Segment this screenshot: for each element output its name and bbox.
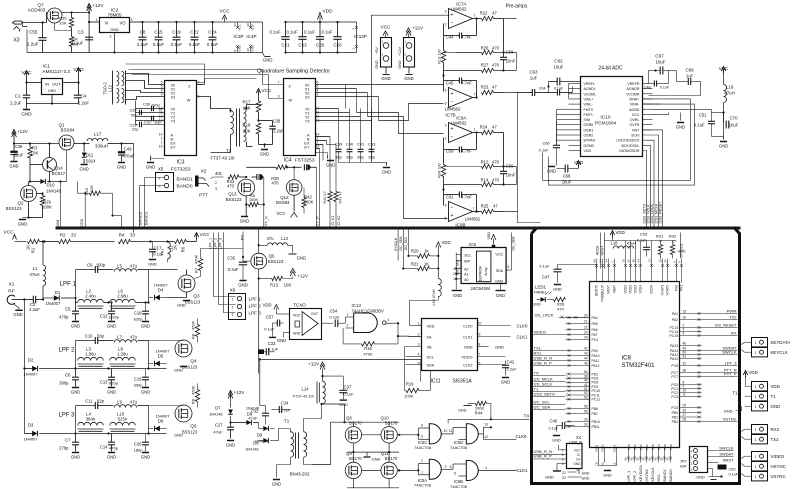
svg-text:56: 56: [665, 457, 669, 461]
svg-text:VSS2: VSS2: [600, 444, 604, 452]
svg-text:T1: T1: [284, 419, 290, 425]
capacitor C20: [134, 434, 151, 460]
inductor L11: [151, 240, 174, 262]
svg-text:39p: 39p: [346, 155, 353, 160]
svg-text:0.1uF: 0.1uF: [549, 427, 559, 431]
wire si5351 left: [398, 301, 438, 365]
resistor R5: [245, 193, 265, 207]
wire Q4 Q5 gates: [192, 349, 219, 414]
svg-text:22: 22: [584, 326, 588, 330]
svg-text:1: 1: [755, 465, 757, 469]
svg-text:1.28u: 1.28u: [117, 352, 128, 357]
svg-text:FMT1: FMT1: [584, 113, 593, 117]
svg-text:VDD3: VDD3: [634, 285, 638, 294]
power VDD at TCXO: [263, 303, 279, 315]
svg-text:330uH: 330uH: [95, 144, 108, 149]
transistor Q14 BC817: [30, 142, 66, 182]
svg-text:10K: 10K: [243, 129, 251, 134]
svg-text:10: 10: [478, 322, 482, 326]
svg-text:XB: XB: [427, 346, 433, 350]
svg-text:BAND0: BAND0: [177, 184, 193, 190]
svg-text:VCC: VCC: [3, 230, 14, 236]
wire: [316, 137, 337, 227]
ground: [547, 163, 557, 174]
svg-text:Q14: Q14: [54, 166, 63, 171]
svg-text:SWCLK: SWCLK: [722, 350, 737, 355]
svg-text:GND: GND: [398, 60, 402, 69]
op-amp IC9B: [445, 202, 481, 228]
svg-text:GND: GND: [107, 455, 116, 460]
svg-text:L14: L14: [302, 387, 310, 392]
svg-text:2: 2: [232, 306, 234, 310]
svg-text:IN: IN: [45, 82, 49, 87]
svg-text:L13: L13: [281, 236, 289, 241]
svg-text:C67: C67: [655, 54, 664, 59]
svg-text:2: 2: [159, 185, 161, 189]
svg-text:38: 38: [683, 369, 687, 373]
capacitor C51: [694, 111, 725, 132]
svg-text:Quadrature Sampling Detector: Quadrature Sampling Detector: [257, 69, 330, 75]
svg-text:Array: Array: [484, 267, 488, 276]
svg-text:3: 3: [161, 93, 163, 97]
svg-text:23: 23: [584, 331, 588, 335]
svg-text:24-bit ADC: 24-bit ADC: [598, 66, 623, 72]
svg-text:1: 1: [418, 322, 420, 326]
resistor R28: [553, 297, 588, 311]
capacitor C41: [357, 109, 365, 163]
svg-text:LM4562: LM4562: [445, 107, 461, 112]
svg-text:Q2: Q2: [17, 201, 24, 206]
svg-text:0.1uF: 0.1uF: [660, 86, 670, 90]
resistor R3: [28, 144, 39, 165]
capacitor C26: [322, 21, 343, 54]
ground: [272, 465, 281, 487]
transistor Q11 BS170: [381, 451, 398, 479]
svg-text:LPF 1: LPF 1: [60, 281, 77, 288]
ground: [141, 322, 150, 329]
svg-text:PB2: PB2: [672, 420, 679, 424]
power +12V: [308, 362, 325, 382]
regulator IC1 AMS1117-3.3: [27, 64, 79, 95]
svg-text:PC7: PC7: [671, 375, 678, 379]
svg-text:C33: C33: [268, 341, 276, 346]
svg-text:R27: R27: [481, 63, 489, 68]
svg-text:C43: C43: [368, 142, 376, 147]
svg-text:1N4007: 1N4007: [153, 283, 168, 288]
svg-text:GND: GND: [293, 332, 301, 336]
resistor R15: [84, 185, 101, 196]
svg-text:C41: C41: [357, 142, 365, 147]
svg-text:C42: C42: [507, 360, 515, 365]
svg-text:GND: GND: [603, 474, 612, 478]
svg-text:R24: R24: [480, 125, 488, 130]
capacitor C43: [368, 109, 376, 163]
svg-text:GND: GND: [375, 60, 379, 69]
capacitor C21: [270, 21, 291, 54]
svg-text:VCC: VCC: [632, 113, 640, 117]
svg-text:OSR0: OSR0: [584, 123, 594, 127]
svg-text:DGND: DGND: [584, 144, 595, 148]
diode D7: [209, 406, 233, 424]
wire: [257, 104, 263, 106]
svg-text:GND: GND: [532, 303, 541, 307]
svg-text:C4: C4: [81, 94, 87, 99]
capacitor C2: [24, 296, 43, 312]
svg-text:1uF: 1uF: [686, 74, 694, 79]
wire: [473, 210, 482, 212]
svg-text:VCC: VCC: [276, 211, 285, 216]
svg-text:L9: L9: [117, 400, 122, 405]
wire preamp outputs loop: [516, 53, 518, 71]
svg-text:56p: 56p: [131, 114, 137, 118]
svg-text:10K: 10K: [31, 151, 39, 156]
svg-text:0.1uF: 0.1uF: [637, 239, 647, 243]
wire: [605, 241, 626, 269]
svg-text:IC3P: IC3P: [233, 34, 243, 39]
svg-text:SCKI: SCKI: [631, 134, 639, 138]
svg-text:VDDO: VDDO: [462, 356, 473, 360]
svg-text:RF: RF: [8, 289, 14, 295]
svg-text:4: 4: [683, 332, 685, 336]
svg-text:S914: S914: [85, 159, 96, 164]
ground: [18, 218, 29, 227]
svg-text:C11: C11: [85, 399, 93, 404]
svg-text:+12V: +12V: [92, 3, 104, 9]
svg-text:GND: GND: [326, 163, 335, 168]
MCU left net labels: [532, 330, 566, 410]
multiplexer IC3 FST3253: [159, 81, 200, 173]
inductor L17: [83, 132, 123, 149]
svg-text:0.1uF: 0.1uF: [343, 392, 354, 397]
capacitor C30: [143, 103, 162, 112]
svg-text:1: 1: [755, 341, 757, 345]
wire: [136, 109, 165, 121]
ADC IC10 PCM1804: [581, 77, 643, 157]
capacitor C45: [444, 76, 478, 99]
svg-text:1: 1: [755, 351, 757, 355]
resistor R27: [444, 63, 517, 76]
net SYSCLK: [680, 233, 684, 259]
svg-text:47: 47: [664, 259, 668, 263]
svg-text:BAND1: BAND1: [144, 211, 149, 225]
svg-text:VIDEO: VIDEO: [534, 330, 546, 335]
svg-text:33: 33: [71, 233, 76, 238]
svg-text:C54: C54: [330, 309, 338, 314]
svg-text:470K: 470K: [363, 352, 373, 357]
svg-text:7: 7: [278, 81, 280, 85]
wire vdd rails: [285, 22, 357, 53]
svg-text:2.2uF: 2.2uF: [27, 42, 39, 47]
svg-text:AOD403: AOD403: [28, 8, 46, 13]
svg-text:−: −: [451, 134, 454, 140]
svg-text:VDD: VDD: [616, 230, 625, 235]
svg-text:GND: GND: [553, 287, 562, 292]
section divider: [56, 227, 741, 230]
svg-text:1: 1: [755, 385, 757, 389]
wire: [76, 367, 167, 369]
wire: [504, 93, 518, 212]
svg-text:470: 470: [492, 178, 500, 183]
svg-text:GND: GND: [404, 76, 414, 81]
svg-text:180p: 180p: [134, 448, 144, 453]
svg-text:IC3: IC3: [177, 160, 185, 166]
svg-text:VSYNC: VSYNC: [723, 417, 737, 422]
wire: [346, 85, 448, 219]
svg-text:C18: C18: [134, 311, 142, 316]
svg-text:SWCLK: SWCLK: [719, 446, 734, 451]
svg-text:IC4P: IC4P: [246, 34, 256, 39]
svg-text:PC3: PC3: [671, 395, 678, 399]
svg-text:USB_R_P: USB_R_P: [534, 454, 553, 459]
svg-text:R2: R2: [60, 233, 66, 238]
svg-text:VREFR: VREFR: [627, 82, 640, 86]
svg-text:13: 13: [484, 423, 488, 427]
svg-text:9: 9: [421, 435, 423, 439]
power VDD: [73, 67, 84, 75]
svg-text:1N4148: 1N4148: [46, 189, 61, 194]
label Pre-amps: [506, 4, 528, 10]
svg-text:5: 5: [454, 472, 456, 476]
svg-text:LPF_1: LPF_1: [627, 471, 631, 482]
svg-text:25: 25: [683, 404, 687, 408]
svg-text:21: 21: [584, 320, 588, 324]
transistor Q9 BS170: [345, 451, 362, 479]
diode D6: [149, 414, 171, 434]
svg-text:16: 16: [683, 316, 687, 320]
svg-text:24: 24: [584, 336, 588, 340]
svg-text:OSR1: OSR1: [584, 128, 594, 132]
svg-text:3: 3: [562, 458, 564, 462]
svg-text:0.1uF: 0.1uF: [322, 30, 333, 35]
svg-text:BS170: BS170: [385, 456, 398, 461]
wire: [23, 300, 25, 369]
transistor Q4: [149, 340, 198, 370]
svg-text:BSS123: BSS123: [226, 197, 242, 202]
power +12V: [87, 3, 105, 53]
svg-text:I2C_SDA: I2C_SDA: [534, 405, 551, 410]
svg-text:FST3253: FST3253: [171, 167, 191, 173]
capacitor C49: [118, 144, 135, 162]
svg-text:470: 470: [227, 184, 235, 189]
svg-text:PB1: PB1: [672, 415, 679, 419]
capacitor C34: [266, 401, 292, 414]
resistor R35: [59, 11, 74, 31]
resistor R30: [246, 165, 301, 185]
svg-text:2: 2: [110, 35, 112, 39]
power VCC header X7: [381, 25, 391, 38]
svg-text:1: 1: [755, 455, 757, 459]
MCU bottom pins: [623, 444, 673, 481]
svg-text:10uF: 10uF: [729, 123, 739, 128]
wire rx feed: [259, 358, 421, 381]
svg-text:7: 7: [473, 207, 475, 211]
svg-text:BN43-202: BN43-202: [290, 472, 310, 477]
svg-text:GND: GND: [71, 324, 80, 329]
net BAND0 BAND1 wires: [138, 178, 165, 227]
svg-text:LPF_3: LPF_3: [725, 361, 738, 366]
capacitor C36: [10, 144, 23, 161]
svg-text:X2: X2: [201, 169, 207, 174]
svg-text:C27: C27: [215, 423, 223, 428]
net I2S3_RESET: [643, 130, 663, 227]
svg-text:BS170: BS170: [349, 420, 362, 425]
svg-text:NRST: NRST: [607, 285, 611, 294]
svg-text:GND: GND: [48, 89, 56, 93]
svg-text:45: 45: [584, 362, 588, 366]
capacitor C22: [189, 21, 201, 54]
svg-text:RX: RX: [241, 234, 245, 240]
svg-text:470: 470: [492, 63, 500, 68]
svg-text:VDD: VDD: [487, 232, 491, 240]
svg-text:LPF_2: LPF_2: [633, 471, 637, 482]
wire top rail: [27, 22, 263, 53]
svg-text:0.1uF: 0.1uF: [270, 30, 281, 35]
svg-text:VSSA: VSSA: [612, 445, 616, 453]
wire adc loop A: [543, 99, 691, 180]
svg-text:I2S_RESET: I2S_RESET: [715, 323, 737, 328]
svg-text:PH0: PH0: [675, 285, 679, 291]
svg-text:GND: GND: [107, 324, 116, 329]
svg-text:1N4007: 1N4007: [155, 414, 170, 419]
svg-text:GND: GND: [696, 476, 705, 480]
wire PA gate row2: [362, 459, 430, 475]
svg-text:Q13: Q13: [228, 192, 237, 197]
svg-text:GND: GND: [107, 390, 116, 395]
svg-text:470p: 470p: [59, 315, 69, 320]
svg-text:I2C_SDA: I2C_SDA: [399, 236, 403, 251]
capacitor C32: [248, 359, 269, 424]
svg-text:VDD: VDD: [584, 149, 592, 153]
svg-text:1: 1: [562, 448, 564, 452]
svg-text:47u: 47u: [161, 249, 165, 255]
svg-text:VDD: VDD: [442, 240, 451, 245]
svg-text:1: 1: [755, 475, 757, 479]
inductor L8: [110, 347, 136, 367]
svg-text:PB5: PB5: [627, 444, 631, 450]
resistor R25: [481, 204, 504, 214]
svg-text:STM32F401: STM32F401: [622, 363, 656, 369]
transistor Q2 BSS123: [6, 182, 44, 218]
resistor R17: [242, 100, 260, 122]
svg-text:R34 100: R34 100: [438, 163, 442, 177]
capacitor C25: [304, 21, 325, 54]
capacitor C12: [100, 301, 120, 320]
wire: [504, 19, 517, 53]
LED1: [532, 285, 552, 307]
connector X4 USB: [532, 435, 583, 469]
capacitor C8: [137, 21, 149, 54]
svg-text:PC15: PC15: [670, 334, 679, 338]
svg-text:10uF: 10uF: [655, 60, 665, 65]
wire: [22, 13, 47, 53]
svg-text:1: 1: [755, 395, 757, 399]
svg-text:EY: EY: [304, 146, 310, 150]
svg-text:48: 48: [632, 259, 636, 263]
IC13P power pins: [352, 22, 367, 53]
svg-text:EY: EY: [171, 146, 177, 150]
svg-text:GND: GND: [545, 475, 554, 480]
connector X2 PTT: [195, 169, 224, 198]
resistor R34v: [438, 150, 446, 191]
wire: [76, 432, 167, 434]
svg-text:GND: GND: [71, 455, 80, 460]
svg-text:10: 10: [444, 429, 448, 433]
wire: [517, 18, 541, 20]
connector JP2 ISP: [680, 446, 734, 473]
svg-text:CLK1: CLK1: [517, 468, 529, 473]
svg-text:47uF: 47uF: [213, 430, 223, 435]
svg-text:R31: R31: [656, 234, 664, 239]
svg-text:D1: D1: [55, 290, 61, 295]
inductor L12 windings: [103, 71, 126, 105]
svg-text:GND: GND: [501, 380, 510, 385]
svg-text:GND: GND: [272, 482, 281, 487]
svg-text:VDD1: VDD1: [624, 285, 628, 294]
transistor Q13: [226, 177, 255, 214]
ground: [13, 310, 22, 317]
svg-text:VI: VI: [105, 21, 109, 26]
svg-text:IC13: IC13: [352, 303, 362, 308]
power VCC rail: [3, 230, 16, 242]
capacitor C1: [10, 81, 30, 108]
svg-text:R41 47: R41 47: [338, 191, 343, 204]
net PWM: [55, 180, 62, 229]
ground: [177, 292, 190, 308]
svg-text:44: 44: [584, 357, 588, 361]
svg-text:0.1uF: 0.1uF: [329, 315, 340, 320]
svg-text:8: 8: [479, 343, 481, 347]
svg-text:0.1uF: 0.1uF: [268, 347, 279, 352]
svg-text:6: 6: [445, 102, 447, 106]
net PTT_N: [263, 177, 268, 229]
power VDD: [574, 160, 583, 169]
capacitor C14: [100, 434, 119, 460]
capacitor C58: [500, 19, 516, 72]
svg-text:2.2uF: 2.2uF: [29, 307, 40, 312]
svg-text:RX2: RX2: [771, 427, 780, 432]
wire: [279, 403, 323, 441]
power VDD at eeprom: [487, 232, 496, 248]
svg-text:9: 9: [479, 333, 481, 337]
wire: [557, 109, 569, 140]
capacitor C15: [153, 21, 165, 54]
svg-text:ADC_SCL: ADC_SCL: [455, 260, 459, 276]
MCU bottom VSS pins: [594, 444, 616, 478]
power +12V header X8: [406, 26, 424, 38]
connector power: [724, 382, 781, 414]
svg-text:C7: C7: [65, 438, 71, 443]
svg-text:LPF 2: LPF 2: [59, 348, 76, 354]
capacitor C29: [130, 122, 165, 132]
ground: [21, 104, 32, 117]
svg-text:R16: R16: [364, 346, 372, 351]
svg-text:CLK1: CLK1: [517, 335, 529, 340]
svg-text:OUT: OUT: [311, 312, 318, 316]
net PTT_P: [315, 173, 320, 229]
svg-text:7: 7: [479, 353, 481, 357]
svg-text:56: 56: [653, 457, 657, 461]
svg-text:C34: C34: [281, 401, 289, 406]
svg-text:LPF_1: LPF_1: [209, 238, 213, 249]
svg-text:10: 10: [246, 48, 250, 52]
inductor L18: [611, 241, 637, 249]
wire: [76, 361, 110, 369]
svg-text:+12V: +12V: [398, 47, 402, 56]
svg-text:60: 60: [593, 259, 597, 263]
svg-text:3: 3: [445, 124, 447, 128]
svg-text:R44: R44: [475, 411, 483, 416]
svg-text:270p: 270p: [59, 446, 69, 451]
